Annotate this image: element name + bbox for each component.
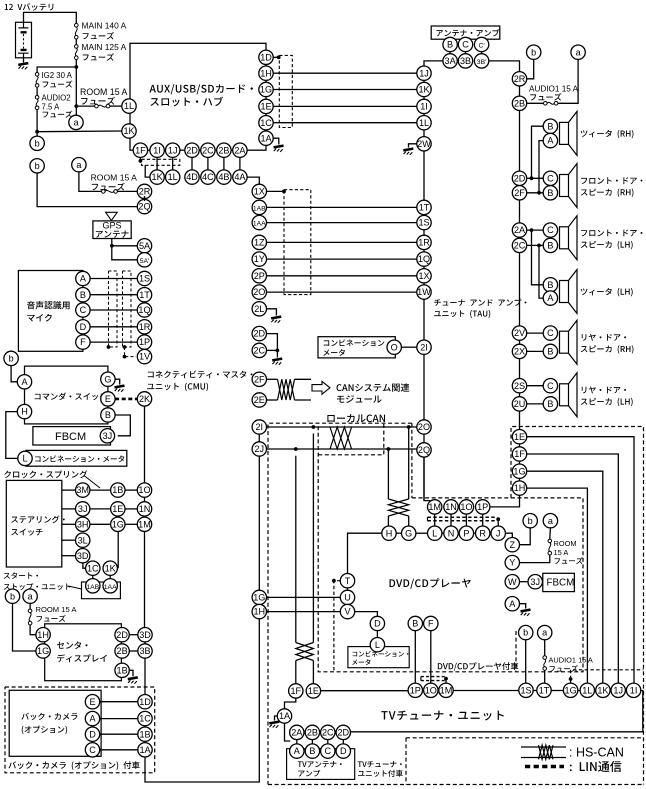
label fuse 125 xyxy=(83,53,114,60)
connector B tweeter RH xyxy=(543,119,557,133)
wire 2C to front LH B xyxy=(527,244,544,246)
svg-text:N: N xyxy=(448,528,455,538)
svg-text:ROOM 15 A: ROOM 15 A xyxy=(91,173,138,183)
connector 1M CMU st xyxy=(137,517,151,531)
wire steering 3L lead xyxy=(62,539,76,541)
label tweeter RH label1 xyxy=(581,130,634,138)
svg-text:4A: 4A xyxy=(234,172,246,182)
svg-text:AUDIO2: AUDIO2 xyxy=(42,93,71,102)
label mic label line1 xyxy=(27,301,70,309)
connector 1E TAU xyxy=(512,430,526,444)
svg-text:2B: 2B xyxy=(307,728,318,738)
label front door speaker RH label1 xyxy=(581,177,642,184)
connector B antenna amp xyxy=(443,37,457,51)
wire enclosure DVD left edge xyxy=(268,423,412,784)
label CMU label line1 xyxy=(148,370,253,378)
svg-text:1Q: 1Q xyxy=(138,305,150,315)
label back camera line1 xyxy=(21,713,77,720)
connector 1A AUX xyxy=(259,131,273,145)
wire 2X to rear RH B xyxy=(527,350,544,352)
connector 2D AUX xyxy=(185,143,199,157)
wire W to 3J fbcm xyxy=(520,581,529,583)
connector 2R TAU xyxy=(512,72,526,86)
svg-text:A: A xyxy=(547,293,554,303)
junction 2C junction xyxy=(276,349,280,353)
svg-text:2D: 2D xyxy=(514,173,526,183)
label 7.5 A xyxy=(42,103,61,112)
label ROOM dvd xyxy=(554,539,577,548)
wire 1C-1L wire xyxy=(273,122,417,124)
wire 2A to front LH C xyxy=(527,229,544,231)
svg-text:1A: 1A xyxy=(279,711,291,721)
wire 2C stub xyxy=(267,349,278,351)
connector 1E tv xyxy=(306,684,320,698)
svg-text:B: B xyxy=(309,746,315,756)
connector 1O dvd xyxy=(459,500,473,514)
connector 3A harness xyxy=(443,54,457,68)
svg-text:B: B xyxy=(547,280,553,290)
label AUDIO1 15 A top xyxy=(529,85,579,94)
svg-text:1G: 1G xyxy=(260,85,272,95)
connector 1P tv xyxy=(408,683,422,697)
svg-text:1T: 1T xyxy=(139,290,150,300)
connector 3B harness disp xyxy=(138,644,152,658)
wire enclosure TV top xyxy=(406,737,644,739)
connector U dvd xyxy=(340,590,354,604)
svg-text:D: D xyxy=(374,619,381,629)
wire TV row 1J-1I link xyxy=(625,690,626,692)
wire 2B-3B link disp xyxy=(129,650,138,652)
wire 2K down to 1O xyxy=(144,406,146,483)
fuse AUDIO1 15 A fuse xyxy=(544,102,558,106)
ground AUX 1A ground xyxy=(274,146,284,152)
connector 1Q TAU xyxy=(417,252,431,266)
connector 1G tv xyxy=(563,683,577,697)
label steering switch line1 xyxy=(11,516,65,524)
connector F mic xyxy=(76,335,90,349)
label legend HS-CAN xyxy=(569,746,624,760)
svg-text:C: C xyxy=(325,746,332,756)
junction 1X shield tap xyxy=(282,190,286,194)
connector 1R TAU xyxy=(417,235,431,249)
connector C front LH xyxy=(543,223,557,237)
wire 2O-1W wire xyxy=(267,291,418,293)
wire TAU left column xyxy=(423,73,425,450)
connector L dvd xyxy=(428,526,442,540)
wire steering 3D lead xyxy=(62,555,76,557)
junction local CAN low tap right xyxy=(387,447,391,451)
connector 1O CMU st xyxy=(137,483,151,497)
svg-text:FBCM: FBCM xyxy=(547,577,575,588)
wire 1J-1L link xyxy=(172,157,174,170)
junction main/IG2 junction xyxy=(74,65,78,69)
svg-text:1C: 1C xyxy=(87,563,99,573)
unit combination meter left xyxy=(26,450,127,466)
connector 2F mid xyxy=(252,372,266,386)
connector D mic xyxy=(76,320,90,334)
svg-text:H: H xyxy=(386,528,393,538)
connector 2B TAU xyxy=(512,96,526,110)
svg-text:1Y: 1Y xyxy=(254,254,265,264)
legend LIN line xyxy=(525,765,564,768)
svg-text:1AB: 1AB xyxy=(253,206,266,213)
wire E-1D wire xyxy=(100,701,138,703)
wire LIN loop under AUX xyxy=(142,159,180,165)
wire enclosure DVD inner box xyxy=(318,423,583,672)
svg-text:1F: 1F xyxy=(290,686,301,696)
label FBCM right xyxy=(547,577,575,588)
svg-text:1F: 1F xyxy=(135,145,146,155)
svg-text:D: D xyxy=(80,322,87,332)
connector 1I tv xyxy=(626,683,640,697)
svg-text:U: U xyxy=(344,593,351,603)
wire enclosure DVD outer xyxy=(511,427,644,785)
svg-text:1M: 1M xyxy=(428,502,441,512)
connector 1AA mid xyxy=(252,215,266,229)
wire 1P link down xyxy=(482,514,484,526)
wire enclosure DVD stub near b xyxy=(515,631,517,672)
connector B front RH xyxy=(543,186,557,200)
connector 1E AUX xyxy=(259,99,273,113)
connector 1B clockspring xyxy=(111,483,125,497)
junction local CAN high tap right xyxy=(407,425,411,429)
connector 1K clockspring xyxy=(103,561,117,575)
wire 3M-1B wire xyxy=(90,489,111,491)
connector 2B display xyxy=(115,644,129,658)
svg-text:1R: 1R xyxy=(418,238,430,248)
wire 2D branch xyxy=(267,334,278,358)
twisted-pair legend HS-CAN braid xyxy=(539,745,554,759)
speaker front door speaker LH xyxy=(560,216,578,260)
wire R-J link xyxy=(490,532,491,534)
connector 1K harness xyxy=(150,170,164,184)
wire A-1S wire xyxy=(90,278,137,280)
connector 2C TAU xyxy=(512,238,526,252)
svg-text:1O: 1O xyxy=(138,485,150,495)
twisted-pair CAN stub 2F/2E xyxy=(278,379,295,400)
label rear door speaker RH label2 xyxy=(581,345,634,353)
label GPS xyxy=(102,221,121,231)
wire local CAN left drop xyxy=(387,449,389,499)
wire 2E CAN line b xyxy=(295,399,312,401)
svg-text:IG2 30 A: IG2 30 A xyxy=(42,71,73,80)
wire shield to 1V xyxy=(125,347,137,357)
svg-text:C: C xyxy=(547,225,554,235)
wire LIN bus upper xyxy=(428,516,497,518)
wire H feed xyxy=(387,516,389,526)
connector 1S TAU xyxy=(417,215,431,229)
label combination meter lower line2 xyxy=(352,659,370,665)
connector 1L tv xyxy=(580,683,594,697)
unit antenna amp xyxy=(431,26,500,39)
connector 1F TAU xyxy=(512,447,526,461)
connector B tvamp xyxy=(305,744,319,758)
wire 1G-1H link mid xyxy=(258,603,260,605)
svg-text:V: V xyxy=(344,607,351,617)
wire a2 to ROOM fuse xyxy=(79,172,102,192)
connector 3D harness disp xyxy=(138,628,152,642)
svg-text:3M: 3M xyxy=(76,485,89,495)
svg-text:B: B xyxy=(412,619,418,629)
svg-text:2B: 2B xyxy=(117,646,128,656)
wire 1M LIN upper xyxy=(421,676,446,678)
connector C tvamp xyxy=(321,744,335,758)
connector 1I TAU xyxy=(417,99,431,113)
svg-text:1S: 1S xyxy=(139,274,150,284)
clock spring leader xyxy=(84,476,100,489)
wire 2F to front RH B xyxy=(527,192,544,194)
fuse MAIN 125 A fuse xyxy=(75,45,79,60)
svg-text:b: b xyxy=(523,628,528,638)
wire 1M LIN lower xyxy=(421,680,446,682)
connector A tweeter LH xyxy=(543,291,557,305)
svg-text:1A: 1A xyxy=(260,133,272,143)
label MAIN 125 A xyxy=(82,42,127,52)
connector 1F tv xyxy=(289,684,303,698)
wire 1X stub xyxy=(267,190,284,192)
svg-text:E: E xyxy=(89,697,95,707)
svg-text:B: B xyxy=(547,241,553,251)
connector 1L harness xyxy=(166,170,180,184)
wire LIN bus lower xyxy=(428,520,497,522)
connector 4B harness xyxy=(217,170,231,184)
wire B to 1P tv xyxy=(414,631,416,684)
connector F dvd out xyxy=(424,616,438,630)
wire steering 3H lead xyxy=(62,523,76,525)
svg-text:ROOM 15 A: ROOM 15 A xyxy=(36,605,78,614)
wire A dvd ground lead xyxy=(520,604,526,609)
svg-text:C: C xyxy=(547,381,554,391)
label commander switch xyxy=(35,392,107,400)
svg-text:1V: 1V xyxy=(139,352,151,362)
label FBCM xyxy=(55,431,86,443)
svg-text:1T: 1T xyxy=(539,685,550,695)
connector 5A CMU xyxy=(137,239,151,253)
connector b battery-1 xyxy=(30,136,44,150)
svg-text:1Z: 1Z xyxy=(254,238,265,248)
unit center display xyxy=(45,624,122,681)
connector 1L TAU xyxy=(417,116,431,130)
svg-text:1P: 1P xyxy=(139,337,150,347)
wire L-N link xyxy=(442,532,444,534)
svg-text:C: C xyxy=(89,745,96,755)
svg-text:1F: 1F xyxy=(514,449,525,459)
svg-text:AUDIO1 15 A: AUDIO1 15 A xyxy=(549,656,593,665)
wire 1E-1N wire xyxy=(125,508,137,510)
wire P-R link xyxy=(474,532,476,534)
svg-text:Y: Y xyxy=(509,558,515,568)
wire 1D stub xyxy=(273,56,277,58)
wire a to fuse5 xyxy=(544,640,546,656)
svg-text:F: F xyxy=(428,619,434,629)
svg-text:1C: 1C xyxy=(139,714,151,724)
GPS antenna box xyxy=(93,221,131,239)
label front door speaker RH label2 xyxy=(581,189,634,197)
connector 2C tv xyxy=(321,725,335,739)
wire b to 2R xyxy=(527,59,534,79)
connector 3J steering xyxy=(76,502,90,516)
svg-text:2L: 2L xyxy=(254,304,264,314)
connector Z dvd xyxy=(505,538,519,552)
connector b tv xyxy=(519,625,533,639)
svg-text:1R: 1R xyxy=(139,322,151,332)
svg-text:2V: 2V xyxy=(514,328,526,338)
unit FBCM xyxy=(33,427,111,445)
junction 1F LIN tap xyxy=(139,159,143,163)
svg-text:L: L xyxy=(22,454,27,464)
connector 2O TAU xyxy=(417,420,431,434)
ground G ground xyxy=(115,386,125,392)
wire 1I-1K link xyxy=(156,157,158,170)
wire 1AA-1S wire xyxy=(267,222,418,224)
svg-text:: HS-CAN: : HS-CAN xyxy=(569,746,624,760)
wire 3H-1G wire xyxy=(90,523,111,525)
label TV antenna amp line2 xyxy=(298,770,320,777)
wire b2 to 2Q xyxy=(37,173,137,207)
svg-text:1J: 1J xyxy=(613,685,623,695)
label fuse IG2 xyxy=(43,81,73,88)
junction 2F tweeter tap xyxy=(537,191,541,195)
wire ROOM fuse to 1L xyxy=(110,105,123,107)
junction shield 1V tap xyxy=(123,355,127,359)
svg-text:2P: 2P xyxy=(254,271,265,281)
svg-text:2A: 2A xyxy=(514,225,526,235)
wire 1B-1O wire xyxy=(125,489,137,491)
svg-text:2C: 2C xyxy=(322,728,334,738)
svg-text:2I: 2I xyxy=(420,342,428,352)
arrow CAN modules xyxy=(312,381,330,394)
svg-text:2C: 2C xyxy=(514,241,526,251)
label front door speaker LH label2 xyxy=(581,241,633,249)
wire B-1T wire xyxy=(90,294,137,296)
svg-text:AUDIO1 15 A: AUDIO1 15 A xyxy=(529,85,579,94)
wire 2B to fuse xyxy=(527,102,544,104)
wire F to 1O tv xyxy=(430,631,432,684)
svg-text:B: B xyxy=(547,347,553,357)
label fuse AUDIO1 top xyxy=(530,93,561,100)
connector 2C AUX xyxy=(201,143,215,157)
connector 1F AUX xyxy=(133,143,147,157)
svg-text:1K: 1K xyxy=(123,126,134,136)
connector 1C camera xyxy=(138,711,152,725)
connector 2A TAU xyxy=(512,223,526,237)
connector W dvd xyxy=(505,575,519,589)
wire H-G link xyxy=(396,532,402,534)
connector 2A AUX xyxy=(233,143,247,157)
connector 1I AUX xyxy=(150,143,164,157)
label clock spring xyxy=(4,470,87,478)
svg-text:4C: 4C xyxy=(202,172,214,182)
connector B rear RH xyxy=(543,344,557,358)
svg-text:G: G xyxy=(104,374,111,384)
connector 1B camera xyxy=(138,727,152,741)
connector a dvd xyxy=(543,514,557,528)
connector 3J FBCM xyxy=(100,429,114,443)
connector 1O tv xyxy=(424,683,438,697)
connector 1X TAU xyxy=(417,269,431,283)
connector V dvd xyxy=(340,604,354,618)
connector b battery-2 xyxy=(30,159,44,173)
wire b to Z xyxy=(520,528,531,545)
wire a to fuse4 xyxy=(549,528,552,539)
connector 1L AUX xyxy=(122,99,136,113)
svg-text:J: J xyxy=(496,528,501,538)
connector 1N dvd xyxy=(444,500,458,514)
connector 1J AUX xyxy=(166,143,180,157)
wire C'-3B' link xyxy=(481,52,483,54)
wire IG2 branch xyxy=(37,67,76,73)
connector 1K tv xyxy=(596,683,610,697)
connector 1R CMU xyxy=(137,320,151,334)
svg-text:1I: 1I xyxy=(420,102,428,112)
connector 1C clockspring xyxy=(86,561,100,575)
ground battery ground xyxy=(18,63,28,69)
wire fuse5 to 1T xyxy=(544,670,546,683)
ground 1A tv ground xyxy=(269,722,279,728)
svg-text:C: C xyxy=(80,305,87,315)
svg-text:C: C xyxy=(462,40,469,50)
svg-text:1A: 1A xyxy=(139,745,151,755)
wire ROOM fuse lead xyxy=(76,105,94,107)
wire 2P-1X wire xyxy=(267,275,418,277)
junction 1D shield tap xyxy=(277,55,281,59)
junction 2A tweeter tap xyxy=(530,228,534,232)
connector C antenna amp xyxy=(458,37,472,51)
connector 2L mid xyxy=(252,302,266,316)
connector A mic xyxy=(76,271,90,285)
svg-text:1K: 1K xyxy=(105,563,116,573)
svg-text:Z: Z xyxy=(510,540,516,550)
wire enclosure DVD inner jog xyxy=(318,423,384,455)
label DVD/CD player caption xyxy=(438,662,519,671)
label combination meter upper line2 xyxy=(323,349,345,356)
connector 1G TAU xyxy=(512,464,526,478)
wire 1G long wire xyxy=(527,471,603,683)
connector C rear LH xyxy=(543,379,557,393)
wire V to D xyxy=(355,612,378,617)
wire fuse4 to Y xyxy=(520,555,550,563)
connector 1T TAU xyxy=(417,200,431,214)
label steering switch line2 xyxy=(11,528,42,535)
svg-text:2I: 2I xyxy=(256,422,264,432)
svg-text:A: A xyxy=(80,274,87,284)
connector 2D mid xyxy=(252,326,266,340)
wire shield box TAU wires xyxy=(284,190,311,295)
wire 1A to 2A xyxy=(285,723,291,741)
wire A-1C wire xyxy=(100,718,138,720)
connector b audio-top xyxy=(527,45,541,59)
svg-text:1G: 1G xyxy=(253,593,265,603)
svg-text:1M: 1M xyxy=(138,519,151,529)
connector 2V TAU xyxy=(512,326,526,340)
wire GPS to 5A xyxy=(112,245,138,247)
label back camera caption xyxy=(8,761,139,770)
connector 1S CMU xyxy=(137,271,151,285)
svg-text:1H: 1H xyxy=(253,607,265,617)
connector 1H display xyxy=(36,628,50,642)
label local CAN xyxy=(327,414,385,422)
wire G feed xyxy=(408,516,410,526)
svg-text:1H: 1H xyxy=(37,630,49,640)
unit combination meter upper xyxy=(318,337,395,358)
wire enclosure DVD inner top-right xyxy=(411,423,413,498)
ground 1B ground xyxy=(128,677,138,683)
label ROOM 15 A mid xyxy=(91,173,138,183)
wire 2C-C link xyxy=(327,740,329,744)
connector C mic xyxy=(76,303,90,317)
unit combination meter lower xyxy=(348,647,409,668)
twisted-pair DVD CAN twisted pair xyxy=(388,499,408,516)
